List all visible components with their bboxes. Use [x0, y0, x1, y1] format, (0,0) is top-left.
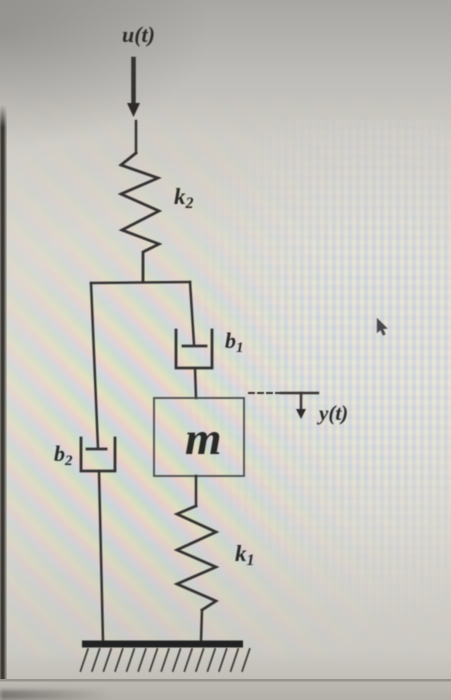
- svg-text:k2: k2: [174, 184, 194, 212]
- svg-text:b2: b2: [54, 441, 73, 469]
- svg-text:m: m: [185, 413, 222, 465]
- svg-text:k1: k1: [235, 541, 255, 569]
- svg-text:u(t): u(t): [122, 22, 155, 47]
- svg-text:b1: b1: [225, 328, 244, 356]
- svg-text:y(t): y(t): [316, 401, 348, 425]
